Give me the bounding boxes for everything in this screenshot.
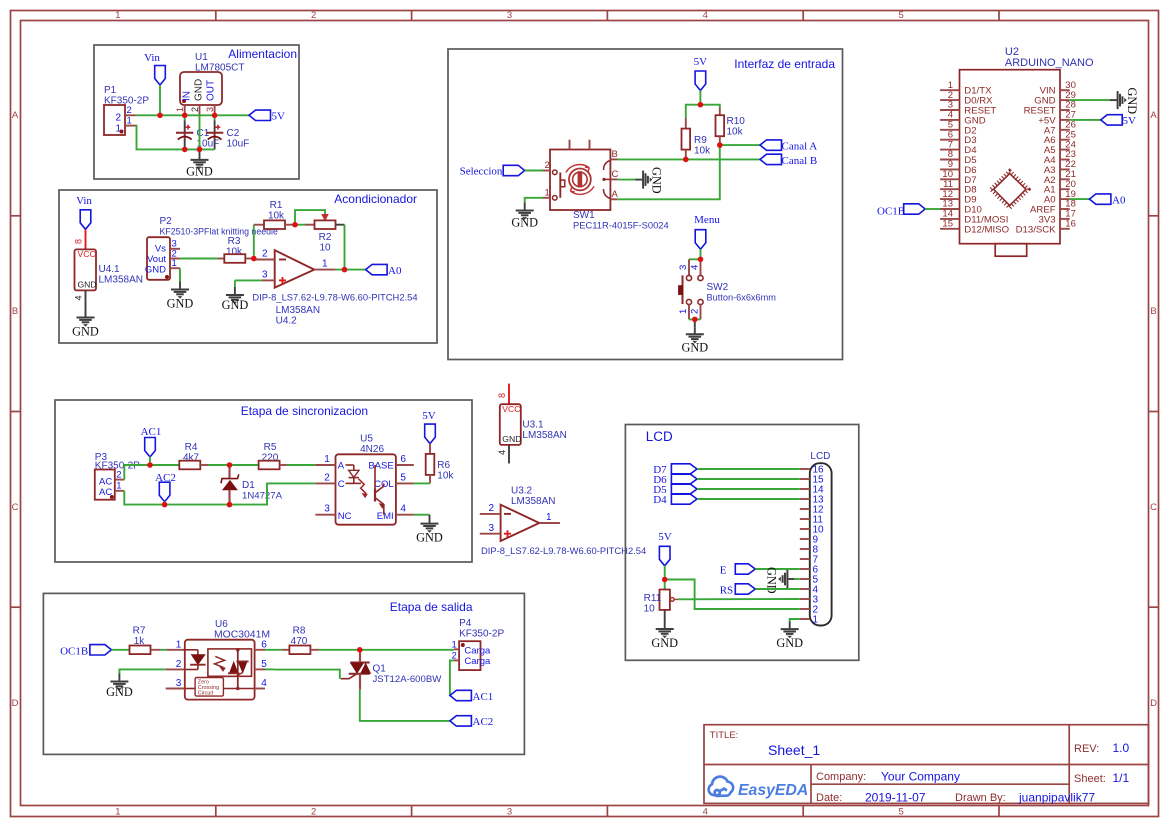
wire P3.2 up to AC1 node [124, 465, 150, 480]
svg-text:1: 1 [116, 481, 121, 492]
svg-text:BASE: BASE [368, 461, 393, 472]
svg-text:GND: GND [416, 531, 443, 545]
pin 30 of U2 [1060, 89, 1070, 91]
pin 5 of U6 [255, 668, 265, 670]
svg-text:Interfaz de entrada: Interfaz de entrada [734, 57, 835, 71]
wire R4-R5 rail [230, 464, 259, 466]
svg-text:Vout: Vout [147, 254, 166, 265]
svg-text:AC1: AC1 [473, 691, 494, 703]
ground symbol U6 [110, 674, 128, 691]
opto transistor [374, 465, 376, 490]
svg-text:D4: D4 [653, 494, 667, 506]
wire R11 bottom to ground [664, 610, 666, 621]
section box LCD [625, 425, 858, 661]
svg-text:1: 1 [172, 258, 177, 269]
svg-text:A: A [612, 189, 619, 200]
wire P1.1 to caps bottom [136, 126, 215, 150]
svg-text:Drawn By:: Drawn By: [955, 792, 1006, 804]
svg-text:Button-6x6x6mm: Button-6x6x6mm [707, 293, 777, 303]
pin 4 of U6 [255, 688, 265, 690]
chip icon [994, 174, 1026, 206]
svg-text:2: 2 [127, 105, 132, 116]
svg-text:GND: GND [78, 280, 97, 290]
pin 2 of U6 [166, 668, 185, 670]
pin 22 of U2 [1060, 168, 1070, 170]
wire output to A0 [336, 269, 366, 271]
svg-text:Carga: Carga [464, 656, 491, 667]
wire 5V down [699, 91, 701, 105]
svg-text:OUT: OUT [206, 80, 217, 101]
svg-text:U3.2: U3.2 [511, 486, 533, 497]
svg-text:R7: R7 [133, 626, 146, 637]
pin 16 of U2 [1060, 228, 1070, 230]
wire to R9 [686, 105, 701, 118]
svg-text:C: C [12, 502, 19, 513]
svg-text:NC: NC [338, 511, 352, 522]
svg-text:GND: GND [776, 636, 803, 650]
svg-text:AC2: AC2 [473, 716, 494, 728]
zero crossing circuit box [195, 678, 223, 697]
selector contacts [604, 161, 611, 171]
pin 27 of U2 [1060, 119, 1070, 121]
pin 6 of U2 [940, 139, 959, 141]
pin 18 of U2 [1060, 208, 1070, 210]
Q1 gate [341, 674, 357, 679]
pin 3 of U5 [315, 514, 335, 516]
wire to pin 3 [689, 258, 701, 260]
wire P4.2 to AC1 [450, 660, 454, 695]
ground symbol U2 GND pin29 [1070, 99, 1110, 101]
rotary symbol [569, 169, 591, 191]
svg-text:Carga: Carga [464, 645, 491, 656]
pin 11 of U2 [940, 188, 959, 190]
pin 2 of LCD [800, 608, 810, 610]
svg-text:3: 3 [324, 504, 330, 515]
svg-text:10k: 10k [694, 146, 711, 157]
pin 3 of U1 [214, 105, 216, 115]
pin 2 of U5 [315, 482, 335, 484]
svg-text:GND: GND [511, 216, 538, 230]
potentiometer R2 10 [295, 210, 325, 225]
pin 1 of P2 [170, 267, 180, 269]
svg-text:ARDUINO_NANO: ARDUINO_NANO [1005, 57, 1094, 69]
wire R6 to COL [414, 482, 430, 484]
pin 1 of U2 [940, 89, 959, 91]
svg-text:1N4727A: 1N4727A [242, 491, 283, 502]
svg-text:JST12A-600BW: JST12A-600BW [373, 674, 443, 685]
svg-text:1: 1 [175, 107, 185, 112]
svg-text:4: 4 [74, 295, 84, 300]
triac Q1 JST12A-600BW [359, 650, 361, 663]
pin 15 of U2 [940, 228, 959, 230]
ground symbol Alimentacion [191, 149, 209, 169]
pin 6 of U6 [255, 649, 265, 651]
svg-text:5V: 5V [1123, 115, 1137, 127]
wire P3.1 down to bottom rail [124, 491, 164, 505]
pin 1 of U1 [184, 105, 186, 115]
svg-text:Q1: Q1 [373, 664, 387, 675]
pin 8 of U2 [940, 159, 959, 161]
pin 12 of U2 [940, 198, 959, 200]
ground symbol SW1 [516, 203, 534, 220]
svg-text:R8: R8 [293, 626, 306, 637]
svg-text:A: A [338, 461, 345, 472]
svg-text:LM358AN: LM358AN [511, 496, 555, 507]
ground symbol C pin rotated [635, 171, 652, 189]
pin 3 of U2 [940, 109, 959, 111]
svg-text:4N26: 4N26 [360, 444, 384, 455]
opto internal LED [346, 464, 354, 466]
svg-text:B: B [612, 149, 618, 160]
net flag 5V pin27 [1070, 119, 1101, 121]
wire Q1 down to AC2 [360, 690, 450, 721]
pin 20 of U2 [1060, 188, 1070, 190]
junction dots overlay [147, 102, 722, 653]
svg-text:10: 10 [644, 604, 656, 615]
pin 4 of U3.1 [508, 445, 510, 464]
wire EMI to ground [414, 514, 430, 516]
svg-text:R6: R6 [437, 460, 450, 471]
zener diode D1 1N4727A [228, 465, 230, 478]
wire R7 to U6.1 [161, 649, 167, 651]
wire SW2 bottom to ground [689, 318, 701, 320]
svg-text:2: 2 [324, 472, 330, 483]
svg-text:GND: GND [651, 636, 678, 650]
svg-text:EasyEDA: EasyEDA [738, 782, 808, 799]
pin 2 of U3.2 [480, 513, 501, 515]
section box Interfaz de entrada [448, 49, 843, 360]
svg-text:5: 5 [261, 659, 267, 670]
pin 3 of LCD [800, 598, 810, 600]
pin 3 of P2 [170, 248, 180, 250]
svg-text:DIP-8_LS7.62-L9.78-W6.60-PITCH: DIP-8_LS7.62-L9.78-W6.60-PITCH2.54 [481, 545, 646, 556]
wire Menu down [700, 249, 702, 259]
svg-text:2: 2 [311, 807, 316, 818]
svg-text:Acondicionador: Acondicionador [334, 192, 417, 206]
pin 8 of U4.1 [85, 229, 87, 249]
svg-text:C: C [338, 479, 345, 490]
wire OC1B to R7 [111, 649, 129, 651]
svg-text:B: B [1150, 306, 1156, 317]
net flag 5V output [249, 110, 271, 120]
pin 1 of U5 [315, 464, 335, 466]
svg-text:VCC: VCC [502, 404, 520, 414]
svg-text:Canal B: Canal B [782, 155, 818, 167]
svg-text:1: 1 [324, 454, 330, 465]
svg-text:D12/MISO: D12/MISO [964, 224, 1009, 235]
section box Etapa de sincronizacion [55, 400, 472, 562]
ground symbol LCD pin1 [781, 622, 799, 639]
wire 5V to R11 [664, 566, 666, 590]
pin 2 of P3 [115, 479, 125, 481]
svg-text:KF2510-3PFlat knitting needle: KF2510-3PFlat knitting needle [160, 227, 278, 237]
ground symbol SW2 [694, 319, 696, 327]
svg-text:1: 1 [127, 116, 132, 127]
svg-text:2: 2 [176, 659, 182, 670]
pin 1 of P1 [125, 125, 136, 127]
svg-text:P2: P2 [160, 216, 173, 227]
U6 internal LED [185, 649, 198, 651]
pin 4 of U5 [396, 514, 414, 516]
pin C of SW1 [610, 178, 617, 180]
wire SW1.A up to Canal A [618, 145, 720, 199]
pin 10 of U2 [940, 178, 959, 180]
svg-text:2: 2 [190, 107, 200, 112]
op-amp U4.2 LM358AN [275, 250, 315, 287]
pin 15 of LCD [800, 478, 810, 480]
wire R5 to opto pin1 [287, 464, 315, 466]
svg-text:6: 6 [400, 454, 406, 465]
pin 3 of U4.2 [262, 279, 275, 281]
wire R2 to output node [344, 225, 346, 270]
U6 gate to zero crossing [210, 672, 243, 676]
svg-text:KF350-2P: KF350-2P [459, 629, 504, 640]
svg-text:3: 3 [507, 807, 512, 818]
usb connector icon [995, 244, 1026, 257]
svg-text:3: 3 [678, 265, 689, 270]
svg-text:Your Company: Your Company [881, 770, 960, 784]
svg-text:LM358AN: LM358AN [276, 305, 320, 316]
wire SW1.1 to ground [525, 198, 543, 203]
section box Etapa de salida [43, 593, 524, 754]
svg-text:U4.2: U4.2 [276, 316, 298, 327]
svg-text:OC1B: OC1B [60, 645, 88, 657]
mount pins of SW1 [569, 140, 571, 150]
wire ground to pin 3 [235, 279, 262, 281]
svg-text:IN: IN [182, 91, 193, 101]
title block [704, 725, 1149, 804]
svg-text:1: 1 [813, 615, 819, 626]
svg-text:1: 1 [115, 807, 120, 818]
pin 21 of U2 [1060, 178, 1070, 180]
svg-text:Company:: Company: [816, 771, 866, 783]
svg-text:Menu: Menu [694, 214, 720, 226]
resistor R6 10k [429, 444, 431, 455]
svg-text:juanpipavlik77: juanpipavlik77 [1018, 791, 1095, 805]
pin 1 of SW1 [543, 197, 550, 199]
svg-text:AC1: AC1 [141, 426, 162, 438]
svg-text:GND: GND [194, 79, 205, 101]
wire P1.2 to U1.IN and OUT to 5V flag [136, 114, 215, 116]
svg-text:LM358AN: LM358AN [99, 275, 143, 286]
pin 26 of U2 [1060, 129, 1070, 131]
svg-text:1: 1 [115, 10, 120, 21]
svg-text:1: 1 [322, 259, 328, 270]
svg-text:R5: R5 [264, 442, 277, 453]
svg-text:D: D [12, 698, 19, 709]
pin 7 of LCD [800, 558, 810, 560]
svg-text:Canal A: Canal A [782, 141, 818, 153]
svg-text:U4.1: U4.1 [99, 264, 121, 275]
ground symbol U4.1 [77, 311, 95, 327]
svg-text:10k: 10k [437, 471, 454, 482]
svg-text:3: 3 [507, 10, 512, 21]
svg-text:VCC: VCC [78, 249, 96, 259]
pin 10 of LCD [800, 528, 810, 530]
svg-text:2: 2 [115, 113, 121, 124]
pin 4 of U2 [940, 119, 959, 121]
ground symbol op-amp [226, 287, 244, 304]
svg-text:1: 1 [678, 309, 689, 314]
svg-text:3: 3 [262, 270, 268, 281]
svg-text:Vin: Vin [76, 195, 92, 207]
svg-text:E: E [720, 565, 727, 577]
EasyEDA logo [709, 777, 733, 796]
U6 internal triac [237, 649, 239, 689]
svg-text:GND: GND [186, 164, 213, 178]
pin 2 of SW1 [543, 170, 550, 172]
R11 wiper [670, 598, 674, 602]
svg-text:Etapa de sincronizacion: Etapa de sincronizacion [241, 404, 368, 418]
pin 1 of P4 [454, 648, 459, 650]
svg-text:8: 8 [74, 239, 84, 244]
svg-text:R2: R2 [319, 232, 332, 243]
pin 11 of LCD [800, 518, 810, 520]
svg-text:4: 4 [703, 807, 708, 818]
svg-text:10k: 10k [727, 127, 744, 138]
svg-text:10: 10 [319, 243, 331, 254]
svg-text:6: 6 [261, 639, 267, 650]
svg-text:RS: RS [720, 585, 733, 597]
wire SW1.B to Canal B [618, 158, 760, 160]
wire Seleccion to SW1.2 [525, 170, 543, 172]
pin 23 of U2 [1060, 159, 1070, 161]
svg-text:D13/SCK: D13/SCK [1016, 224, 1057, 235]
pushbutton SW2 Button-6x6x6mm [688, 259, 690, 275]
pin B of SW1 [610, 158, 617, 160]
pin 3 of U6 [166, 688, 185, 690]
svg-text:R11: R11 [644, 593, 662, 604]
svg-text:D1: D1 [242, 480, 255, 491]
svg-text:EMI: EMI [377, 511, 394, 522]
svg-text:GND: GND [106, 685, 133, 699]
net flag A0 pin19 [1070, 198, 1090, 200]
ground symbol EMI [421, 515, 439, 533]
svg-text:3: 3 [176, 678, 182, 689]
pin 5 of U2 [940, 129, 959, 131]
capacitor C1 10uF [184, 115, 186, 120]
pin 12 of LCD [800, 508, 810, 510]
svg-text:1: 1 [545, 187, 550, 198]
svg-text:U5: U5 [360, 434, 373, 445]
svg-text:1/1: 1/1 [1113, 771, 1130, 785]
svg-text:GND: GND [222, 298, 249, 312]
section box Alimentacion [94, 45, 299, 179]
svg-text:A0: A0 [388, 265, 402, 277]
svg-text:D: D [1150, 698, 1157, 709]
svg-text:R3: R3 [228, 236, 241, 247]
svg-text:GND: GND [650, 167, 664, 194]
wire to R10 [700, 105, 719, 108]
svg-text:Sheet_1: Sheet_1 [768, 742, 820, 758]
pin 2 of U4.2 [254, 259, 275, 261]
svg-text:Seleccion: Seleccion [460, 166, 503, 178]
svg-text:4: 4 [703, 10, 708, 21]
svg-text:2: 2 [489, 503, 495, 514]
rotary encoder SW1 PEC11R-4015F-S0024 [550, 150, 610, 211]
svg-text:1.0: 1.0 [1113, 741, 1130, 755]
pin 25 of U2 [1060, 139, 1070, 141]
svg-text:4: 4 [261, 678, 267, 689]
svg-text:1: 1 [452, 640, 457, 651]
net flag AC1 salida [450, 690, 472, 700]
svg-text:C2: C2 [227, 128, 240, 139]
pin 1 of P3 [115, 490, 125, 492]
svg-text:Circuit: Circuit [198, 690, 214, 696]
svg-text:2: 2 [116, 469, 121, 480]
U6 zigzag arrow [215, 656, 225, 667]
svg-text:Sheet:: Sheet: [1074, 773, 1106, 785]
svg-text:1: 1 [546, 512, 552, 523]
bottom rail to opto [230, 483, 316, 504]
net flag Canal A [760, 140, 782, 150]
pin 5 of LCD [800, 578, 810, 580]
wire top rail to R4 [150, 464, 179, 466]
pin 2 of U1 [199, 105, 201, 115]
svg-text:16: 16 [1065, 219, 1076, 230]
potentiometer R11 10 [660, 590, 670, 610]
svg-text:R10: R10 [727, 116, 746, 127]
net flag AC2 salida [450, 716, 472, 726]
pin 9 of U2 [940, 168, 959, 170]
pin 4 of U4.1 [85, 290, 87, 317]
push switch symbol [559, 173, 561, 198]
svg-text:1: 1 [176, 639, 182, 650]
ground symbol P2 [171, 282, 189, 299]
svg-text:A: A [1150, 110, 1157, 121]
svg-text:GND: GND [1125, 88, 1139, 115]
wire AC2 to bottom rail [164, 501, 166, 504]
pin 2 of P2 [170, 258, 180, 260]
wire junction to pin2 [665, 580, 800, 610]
ground symbol R11 [656, 621, 674, 638]
pin 4 of LCD [800, 588, 810, 590]
svg-text:Vin: Vin [144, 52, 160, 64]
wire Vin to node [159, 85, 161, 115]
pin 13 of U2 [940, 208, 959, 210]
svg-text:8: 8 [497, 393, 507, 398]
svg-text:2019-11-07: 2019-11-07 [865, 791, 926, 805]
wire U6.2 to ground [119, 669, 165, 673]
svg-text:5V: 5V [272, 111, 286, 123]
pin 1 of U4.2 output [314, 269, 335, 271]
wire U6.5 to Q1 gate [265, 668, 274, 670]
svg-text:P4: P4 [459, 618, 472, 629]
resistor R10 10k [719, 108, 721, 115]
wire R4 to D1 node [208, 464, 230, 466]
wire to Canal A flag [720, 144, 760, 146]
svg-text:AC: AC [99, 476, 112, 487]
pin 1 of U3.2 [539, 522, 560, 524]
svg-text:5V: 5V [694, 56, 708, 68]
ground symbol LCD pin5 [794, 578, 799, 580]
svg-text:2: 2 [262, 249, 268, 260]
pin 8 of LCD [800, 548, 810, 550]
svg-text:GND: GND [681, 340, 708, 354]
pin 3 internal wire [185, 688, 195, 690]
svg-text:GND: GND [145, 265, 166, 276]
svg-text:LCD: LCD [810, 451, 830, 462]
svg-text:Date:: Date: [816, 792, 842, 804]
U6 inner box [208, 649, 252, 676]
pin 4 internal wire [223, 688, 254, 690]
svg-text:REV:: REV: [1074, 743, 1099, 755]
svg-text:2: 2 [545, 160, 550, 171]
svg-text:GND: GND [72, 325, 99, 339]
svg-text:LM358AN: LM358AN [522, 430, 566, 441]
pin 2 of P1 [125, 114, 136, 116]
svg-text:DIP-8_LS7.62-L9.78-W6.60-PITCH: DIP-8_LS7.62-L9.78-W6.60-PITCH2.54 [252, 292, 417, 303]
